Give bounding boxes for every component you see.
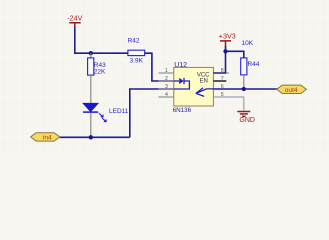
pin 2 [159,76,174,82]
port in4 [31,133,60,142]
node C junction below +3V3 [223,49,227,53]
power symbol +3V3 [219,32,236,51]
wire riser from bottom rail to U12 pin 3 [130,89,174,137]
internal LED of U12 [174,78,190,89]
pin 7 black stub [213,76,226,82]
resistor R43 top pin [90,53,92,58]
resistor R44 bottom pin to node D [243,75,245,89]
pin 3 [159,84,174,90]
wire node C to R44 top [226,51,244,57]
svg-text:3.9K: 3.9K [130,57,144,64]
resistor R44 [241,58,247,75]
wire U12 pin 6 to out4 [213,88,277,90]
pin 8 [213,68,229,74]
svg-text:U12: U12 [174,62,187,69]
LED11 emission arrows [99,113,106,122]
LED11 diode triangle and cathode bar [83,103,98,112]
pin 5 and wire to GND [213,92,243,110]
svg-text:EN: EN [200,79,208,85]
wire in4 bottom rail [60,136,130,138]
wire node A to R42 left terminal [74,52,128,54]
svg-text:6N136: 6N136 [173,107,192,114]
resistor R43 bottom pin to LED11 anode [90,75,92,103]
pin 1 [159,68,174,74]
LED11 cathode pin down to bottom rail [90,113,92,138]
optocoupler U12 body [174,67,214,106]
svg-text:5: 5 [221,92,224,98]
svg-text:out4: out4 [285,87,298,94]
svg-text:1: 1 [165,68,168,74]
node A junction at R43 top [89,51,93,55]
svg-text:R44: R44 [248,61,260,68]
svg-text:10K: 10K [242,40,254,47]
resistor R43 [88,58,94,75]
svg-text:R42: R42 [128,38,140,45]
node B junction at LED11 cathode [89,135,93,139]
svg-text:3: 3 [165,84,168,90]
svg-text:+3V3: +3V3 [219,32,236,41]
svg-text:GND: GND [239,117,255,124]
wire from -24V down to node A [74,28,76,54]
wire U12 pin 8 up to +3V3 node C [213,51,225,73]
svg-text:22K: 22K [94,69,106,76]
pin 4 [159,92,174,98]
wire R42 right terminal down to U12 pin 2 [145,53,174,81]
resistor R42 [128,50,145,55]
internal output enable arrow of U12 [196,88,214,97]
svg-text:in4: in4 [43,135,52,142]
pin 6 [213,84,229,90]
svg-text:LED11: LED11 [109,108,129,115]
power symbol -24V [67,13,82,28]
svg-text:7: 7 [221,76,224,82]
port out4 [277,85,307,94]
svg-text:2: 2 [165,76,168,82]
ground [237,112,255,124]
svg-text:4: 4 [165,92,168,98]
svg-text:-24V: -24V [67,13,82,22]
svg-text:VCC: VCC [197,72,210,78]
node D junction at R44 bottom [242,87,246,91]
